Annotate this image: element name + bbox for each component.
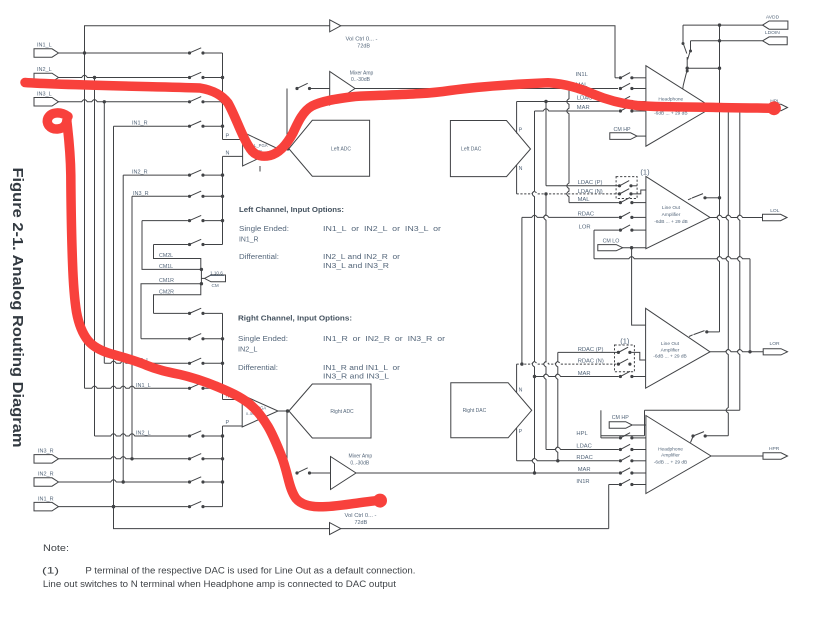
svg-text:(1): (1) [620, 337, 630, 346]
bus MAR vertical [532, 111, 534, 473]
wire HPL route to CM HP box [601, 410, 740, 438]
wire left DAC N stub [516, 165, 518, 194]
wire right PGA out [278, 410, 289, 412]
svg-text:Single Ended:: Single Ended: [239, 226, 289, 233]
wire MAL lol to amp [634, 202, 646, 204]
switch MAR hp [619, 106, 634, 113]
op-amp right PGA [242, 395, 278, 427]
switch LOR feedback right [689, 330, 720, 336]
wire RDAC (P) jog to amp [632, 352, 646, 360]
wire IN2_R row [123, 174, 188, 176]
bus IN2_R vertical [122, 175, 124, 482]
switch IN1_R lower [188, 501, 205, 508]
switch RDAC (N) [617, 359, 632, 366]
svg-text:IN3_R: IN3_R [38, 449, 54, 455]
switch RDAC lol [619, 212, 634, 219]
wire LDAC (P) row [546, 185, 619, 187]
wire IN2_R pin row [59, 480, 188, 482]
svg-text:Left ADC: Left ADC [331, 147, 351, 153]
svg-text:Line Out: Line Out [661, 341, 680, 347]
switch RDAC hpr [619, 456, 634, 463]
wire IN3_R pin row [59, 457, 188, 459]
pin CM HP left [610, 127, 637, 139]
switch right mixer input [295, 468, 311, 475]
svg-text:-6dB ... + 29 dB: -6dB ... + 29 dB [654, 459, 687, 465]
wire CM LO down to right line out amp [632, 248, 646, 325]
op-amp Headphone Amplifier right [646, 416, 711, 494]
box dashed default-connection right [615, 345, 635, 372]
wire right DAC P stub [516, 428, 518, 461]
svg-text:Right DAC: Right DAC [463, 408, 487, 414]
svg-text:IN1_R: IN1_R [38, 496, 54, 502]
buffer bottom Vol Ctrl [330, 523, 341, 535]
wire supply node [687, 57, 719, 68]
bus v1 supply-feedback vertical [717, 25, 719, 332]
svg-text:IN1_R or IN2_R or IN3_R o: IN1_R or IN2_R or IN3_R or [323, 336, 446, 343]
switch LDAC hpr [619, 444, 634, 451]
wire LOL output [710, 215, 763, 217]
svg-text:AVDD: AVDD [766, 14, 780, 20]
wire MAR hpr to amp [634, 472, 646, 474]
wire CM1L [142, 221, 201, 270]
svg-text:CM1R: CM1R [159, 278, 174, 284]
svg-text:L_PGA: L_PGA [254, 143, 268, 148]
bus P upper with input junctions [222, 53, 224, 140]
wire P input upper PGA [223, 139, 243, 141]
node CM vertical [200, 269, 202, 283]
wire CM1R [141, 284, 201, 339]
wire LDAC hpr to amp [634, 449, 646, 451]
wire IN1_R pin row to P bus [205, 506, 223, 508]
wire MAL to HP amp [634, 88, 646, 90]
wire IN1_L row to P bus [205, 52, 223, 54]
svg-text:P: P [226, 133, 230, 139]
svg-text:CM LO: CM LO [603, 239, 620, 245]
svg-text:Right ADC: Right ADC [330, 409, 354, 415]
wire LOR feedback route [594, 230, 750, 259]
switch RDAC (P) [617, 347, 632, 354]
switch IN1R [619, 479, 634, 486]
svg-text:CM: CM [212, 283, 219, 288]
wire HPR output [711, 455, 763, 457]
wire CM2R row [154, 312, 188, 314]
switch IN2_L lower [188, 431, 205, 438]
wire IN1R row [609, 484, 619, 486]
wire CM LO to amp [623, 247, 646, 249]
pin LOL [763, 208, 788, 221]
wire PGA node to mixer switch [286, 89, 288, 149]
wire RDAC lol to amp [634, 216, 646, 218]
wire CM HP to amp [637, 135, 646, 137]
bus P lower with input junctions [222, 426, 224, 507]
wire LDOIN [691, 40, 763, 42]
switch CM2R [188, 308, 205, 315]
wire IN2_L row [59, 75, 188, 77]
wire right switch to mixer amp [311, 472, 331, 474]
svg-text:Left DAC: Left DAC [461, 146, 482, 152]
op-amp left Mixer Amp [330, 70, 374, 105]
switch IN1_R [188, 121, 205, 128]
switch LOL feedback [688, 194, 721, 200]
svg-text:LOR: LOR [770, 341, 781, 347]
pin AVDD [763, 14, 788, 29]
wire P input lower PGA [223, 425, 243, 427]
wire left DAC P stub [516, 102, 518, 134]
annotation red stroke vertical [47, 113, 375, 507]
op-amp Line Out Amplifier right [646, 308, 710, 388]
text left channel options [239, 205, 442, 270]
wire CM2R row to N bus [205, 312, 223, 314]
svg-text:(1): (1) [42, 565, 59, 575]
wire MAR lor to amp [634, 376, 646, 378]
svg-text:Left Channel, Input Options:: Left Channel, Input Options: [239, 205, 344, 214]
wire LDAC row [517, 101, 619, 103]
svg-text:HPR: HPR [769, 446, 780, 452]
wire RDAC hpr to amp [634, 460, 646, 462]
svg-text:LOR: LOR [579, 224, 591, 230]
bus MAL vertical [567, 89, 569, 203]
wire RDAC row lol [522, 215, 619, 217]
pin LDOIN [763, 30, 788, 45]
block Left DAC [450, 121, 530, 177]
wire LOR lol to amp [634, 229, 646, 231]
bus RDAC P vertical [556, 352, 558, 460]
pin IN1_L [34, 43, 59, 58]
pin HPL [763, 99, 788, 111]
svg-text:IN1R: IN1R [576, 479, 589, 485]
svg-text:IN2_L: IN2_L [238, 346, 258, 353]
svg-text:Figure 2-1. Analog Routing Dia: Figure 2-1. Analog Routing Diagram [9, 168, 25, 448]
switch HPL [619, 433, 634, 440]
svg-text:Line out switches to N termina: Line out switches to N terminal when Hea… [43, 579, 397, 589]
wire IN3_R row to N bus [205, 195, 223, 197]
wire IN1L to HP amp [634, 77, 646, 79]
node PGA output junction [286, 147, 290, 151]
wire MAR row [535, 109, 619, 111]
text right channel options [238, 313, 446, 380]
wire HPL output [712, 107, 763, 109]
bus IN1_R vertical [113, 126, 115, 528]
switch IN3_L [188, 97, 205, 104]
pin CM [201, 271, 225, 288]
bus IN3_R vertical [131, 196, 133, 459]
wire LDAC (P) jog to amp [633, 185, 638, 187]
wire MAR long row [356, 472, 619, 474]
pin CM LO [598, 239, 623, 251]
svg-text:MAR: MAR [578, 371, 591, 377]
bus IN1R vertical right [608, 485, 610, 529]
svg-text:IN1_R and IN1_L or: IN1_R and IN1_L or [323, 365, 401, 372]
svg-text:IN1_L: IN1_L [37, 43, 52, 49]
svg-text:N: N [519, 388, 523, 394]
wire HPL row to amp [634, 437, 646, 439]
bus v4 LOR route down [749, 259, 751, 352]
wire IN3_L lower row to N bus [205, 362, 223, 364]
switch IN1_L lower [188, 383, 205, 390]
bus IN3_L vertical [103, 102, 105, 364]
svg-text:IN2_R: IN2_R [38, 472, 54, 478]
op-amp left PGA [243, 132, 279, 172]
pin IN1_R [34, 496, 59, 511]
wire IN2_R row to N bus [205, 174, 223, 176]
svg-text:HPL: HPL [576, 431, 588, 437]
wire switch to mixer amp [311, 88, 330, 90]
bus N lower with input junctions [222, 313, 224, 399]
switch LDOIN supply [688, 41, 692, 60]
svg-text:RDAC: RDAC [576, 455, 592, 461]
svg-text:IN2_L and IN2_R or: IN2_L and IN2_R or [323, 254, 401, 261]
svg-text:N: N [226, 151, 230, 157]
wire CM2R [154, 284, 201, 314]
svg-text:IN3_L and IN3_R: IN3_L and IN3_R [323, 263, 389, 270]
wire LDAC row hpr [546, 447, 619, 449]
svg-text:Right Channel, Input Options:: Right Channel, Input Options: [238, 313, 352, 322]
wire IN1_L lower row [85, 386, 188, 388]
wire IN3_L row [59, 100, 188, 102]
bus LDAC vertical upper [545, 102, 547, 186]
wire IN1_R row [114, 125, 188, 127]
bus IN2_L vertical [94, 78, 96, 437]
svg-text:Differential:: Differential: [238, 365, 278, 372]
svg-text:Headphone: Headphone [658, 96, 683, 102]
wire CM HP right to amp [632, 424, 646, 426]
switch AVDD supply [682, 25, 687, 53]
switch CM1R [188, 334, 205, 341]
switch MAL hp [619, 83, 634, 90]
svg-text:LOL: LOL [770, 208, 780, 214]
wire IN3_L row to P bus [205, 101, 223, 103]
wire IN2_R pin row to P bus [205, 481, 223, 483]
wire CM1R row to N bus [205, 338, 223, 340]
wire N input upper PGA [223, 155, 243, 157]
svg-text:Amplifier: Amplifier [662, 212, 681, 218]
svg-text:Differential:: Differential: [239, 254, 279, 261]
switch IN3_L lower [188, 358, 205, 365]
wire bottom IN1_R to Vol Ctrl to IN1R [114, 507, 609, 529]
op-amp Line Out Amplifier left [646, 176, 710, 248]
svg-text:0..-30dB: 0..-30dB [350, 460, 370, 466]
wire CM1L row to N bus [205, 220, 223, 222]
annotation red stroke horizontal [25, 83, 772, 157]
switch IN1L [619, 73, 634, 80]
switch IN2_R lower [188, 477, 205, 484]
wire IN2_L row to P bus [205, 77, 223, 79]
wire MAR row lor [535, 374, 619, 376]
wire IN1L row [615, 77, 619, 79]
wire IN2_L lower row to P bus [205, 435, 223, 437]
wire IN3_R row [132, 195, 188, 197]
switch MAR hpr [619, 468, 634, 475]
svg-text:P: P [226, 420, 230, 426]
svg-text:Vol Ctrl 0... -: Vol Ctrl 0... - [346, 37, 378, 43]
pin IN2_R [34, 472, 59, 487]
svg-text:Vol Ctrl 0... -: Vol Ctrl 0... - [345, 513, 377, 519]
wire HPL row [601, 437, 619, 439]
wire LDAC to HP amp [634, 101, 646, 103]
bus N upper with input junctions [222, 156, 224, 244]
wire MAR to HP amp [634, 110, 646, 112]
pin CM HP right [609, 415, 632, 428]
wire CM2L [154, 245, 201, 270]
pin IN2_L [34, 67, 59, 82]
svg-text:IN3_R and IN3_L: IN3_R and IN3_L [323, 373, 389, 380]
svg-text:72dB: 72dB [357, 44, 370, 50]
wire IN2_L lower row [95, 434, 188, 436]
wire MAL row lol [569, 202, 619, 204]
bus LDAC N vertical lower [544, 194, 546, 450]
wire LOR row lol [594, 229, 619, 231]
svg-text:72dB: 72dB [355, 520, 368, 526]
svg-text:MAR: MAR [577, 105, 590, 111]
switch IN1_L [188, 48, 205, 55]
svg-text:P terminal of the respective D: P terminal of the respective DAC is used… [85, 565, 415, 575]
svg-text:Single Ended:: Single Ended: [238, 336, 288, 343]
op-amp right Mixer Amp [331, 453, 373, 489]
svg-text:Note:: Note: [43, 543, 69, 553]
switch LDAC hp [619, 96, 634, 103]
switch CM2L [188, 239, 205, 246]
node right PGA output junction [286, 409, 290, 413]
svg-text:N: N [519, 166, 523, 172]
pin IN3_R [34, 449, 59, 464]
wire IN1_R row to P bus [205, 125, 223, 127]
wire AVDD [683, 24, 763, 26]
svg-text:Mixer Amp: Mixer Amp [348, 453, 372, 459]
wire PGA out to Left ADC [279, 148, 289, 150]
wire N input lower PGA [223, 399, 243, 401]
box dashed default-connection left [616, 177, 637, 199]
bus IN1_L vertical [84, 53, 86, 388]
switch HPR feedback [691, 432, 729, 443]
switch IN2_R [188, 170, 205, 177]
svg-text:-6dB ... + 29 dB: -6dB ... + 29 dB [653, 354, 686, 360]
wire CM2L row [154, 244, 188, 246]
wire IN1_L lower row to N bus [205, 387, 223, 389]
wire IN1R to amp [634, 484, 646, 486]
switch MAR lor [619, 371, 634, 378]
svg-text:MAR: MAR [578, 467, 591, 473]
switch IN3_R [188, 191, 205, 198]
switch LOR lol [619, 225, 634, 232]
wire RDAC (N) dashed row [517, 362, 618, 364]
svg-text:Headphone: Headphone [658, 446, 683, 452]
svg-text:LDAC: LDAC [576, 443, 591, 449]
wire LDAC (N) dashed row [517, 192, 619, 194]
text note [42, 543, 415, 589]
switch left mixer input [295, 83, 311, 90]
wire CM1L row [142, 220, 188, 222]
wire CM2L row to N bus [205, 244, 223, 246]
svg-text:RDAC: RDAC [578, 212, 594, 218]
svg-text:Amplifier: Amplifier [661, 453, 680, 459]
pin IN3_L [34, 92, 59, 107]
svg-text:IN1_R: IN1_R [239, 236, 259, 243]
svg-text:IN1L: IN1L [576, 72, 589, 78]
svg-text:IN3_L: IN3_L [37, 92, 52, 98]
wire top IN1_L to Vol Ctrl to IN1L [85, 26, 616, 78]
switch MAL lol [619, 197, 634, 204]
bus RDAC cross vertical [521, 217, 523, 364]
switch IN3_R lower [188, 454, 205, 461]
wire RDAC (P) row [558, 351, 618, 353]
svg-text:IN2_L: IN2_L [37, 67, 52, 73]
wire LDAC(N) jog to amp [633, 190, 646, 194]
switch IN2_L [188, 72, 205, 79]
svg-text:(1): (1) [640, 168, 650, 177]
pin HPR [763, 446, 788, 459]
op-amp Headphone Amplifier left [646, 66, 712, 147]
wire CM1R row [141, 338, 188, 340]
switch LDAC (N) [618, 189, 633, 196]
block Left ADC [289, 120, 370, 176]
switch LDAC (P) [618, 181, 633, 188]
switch HP left feedback [683, 68, 689, 89]
svg-text:-6dB ... + 29 dB: -6dB ... + 29 dB [654, 219, 687, 225]
block Right DAC [451, 383, 532, 438]
svg-text:0..-30dB: 0..-30dB [351, 77, 371, 83]
wire RDAC row hpr [517, 459, 619, 461]
wire IN1_L row [59, 52, 188, 54]
wire right node to mixer switch [286, 411, 288, 473]
switch CM1L [188, 215, 205, 222]
pin LOR [763, 341, 787, 355]
svg-text:P: P [519, 128, 523, 134]
svg-text:IN1_L or IN2_L or IN3_L o: IN1_L or IN2_L or IN3_L or [323, 226, 442, 233]
wire right DAC N stub [516, 364, 518, 392]
wire MAL mixer output to HP amp [355, 88, 618, 90]
block Right ADC [289, 384, 371, 438]
svg-text:Amplifier: Amplifier [661, 347, 680, 353]
bus v3 HPL route vertical [738, 108, 740, 411]
wire IN3_R pin row to P bus [205, 458, 223, 460]
buffer top Vol Ctrl [330, 20, 341, 32]
svg-text:LDOIN: LDOIN [765, 30, 780, 36]
bus v2 HPL feedback vertical [726, 108, 728, 436]
svg-text:Line Out: Line Out [662, 205, 681, 211]
svg-text:CM HP: CM HP [612, 415, 630, 421]
svg-text:P: P [519, 429, 523, 435]
wire IN1_R pin row [59, 506, 188, 508]
svg-text:Mixer Amp: Mixer Amp [350, 70, 374, 76]
wire IN3_L lower row [104, 361, 188, 363]
wire LOR output [710, 350, 763, 352]
svg-text:CM HP: CM HP [614, 127, 632, 133]
svg-text:1,10,6: 1,10,6 [210, 271, 223, 276]
